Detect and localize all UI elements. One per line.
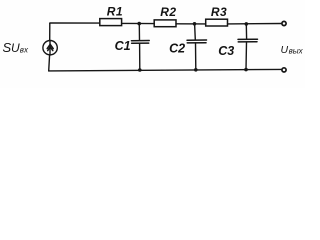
svg-text:R2: R2 [160, 5, 176, 19]
svg-text:C3: C3 [218, 44, 234, 58]
label SUвх [3, 40, 29, 55]
wire: top rail, R2 to R3 [176, 23, 206, 25]
node: C2 bottom junction [194, 68, 198, 72]
wire: top rail, R3 to output terminal [228, 23, 282, 25]
signal source SUвх (circle with upward arrow) [43, 41, 57, 56]
terminal: output top [282, 21, 286, 25]
capacitor C2 [187, 24, 207, 70]
wire: left vertical from source circle down to bottom rail [48, 55, 51, 71]
capacitor C1 [131, 24, 149, 70]
node: C3 bottom junction [244, 68, 248, 72]
wire: top rail, source corner to R1 [50, 22, 100, 24]
svg-text:вых: вых [289, 47, 304, 56]
wire: top rail, R1 to R2 [122, 22, 155, 24]
svg-text:R1: R1 [107, 4, 123, 18]
wire: bottom rail [49, 69, 282, 71]
label Uвых [281, 44, 304, 56]
wire: left vertical from top rail down to source circle [49, 23, 51, 40]
terminal: output bottom [282, 68, 286, 72]
resistor R1 [100, 19, 122, 26]
svg-text:R3: R3 [211, 5, 227, 19]
node: C3 top junction [245, 22, 249, 26]
svg-text:C1: C1 [115, 39, 131, 53]
svg-text:U: U [11, 41, 20, 55]
capacitor C3 [238, 24, 258, 70]
node: C1 top junction [137, 22, 141, 26]
resistor R3 [206, 19, 228, 26]
svg-text:U: U [281, 44, 289, 56]
node: C1 bottom junction [138, 68, 142, 72]
node: C2 top junction [193, 22, 197, 26]
svg-text:C2: C2 [169, 42, 185, 56]
resistor R2 [154, 20, 176, 27]
svg-text:вх: вх [20, 46, 29, 55]
